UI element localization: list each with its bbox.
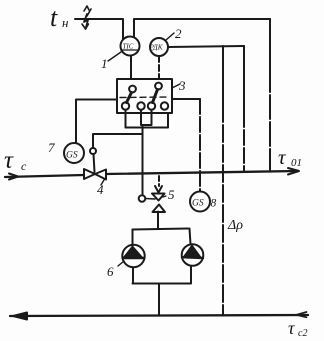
switch GS7	[64, 143, 84, 163]
svg-text:8: 8	[211, 198, 217, 210]
wire left pump to bottom rail	[132, 268, 134, 284]
pump bottom rail	[133, 283, 191, 285]
terminals bottom	[122, 102, 129, 109]
svg-text:5: 5	[168, 187, 175, 202]
switch box 3	[117, 79, 172, 113]
svg-text:2: 2	[175, 26, 182, 41]
wire controller 1 to supply pipe (top bridge)	[134, 19, 270, 37]
pump P2 (right)	[182, 244, 204, 266]
node t_n label	[50, 3, 68, 32]
wire node to valve 5	[146, 198, 156, 201]
label 3	[172, 78, 186, 93]
svg-text:GS: GS	[192, 199, 204, 209]
label tau_c	[4, 147, 27, 174]
impulse line dp to return pipe	[222, 46, 224, 105]
switch contacts top	[129, 86, 136, 93]
controller PDK circle 2	[149, 38, 169, 56]
svg-text:6: 6	[107, 264, 114, 279]
svg-text:ТIC: ТIC	[123, 43, 134, 51]
wire T1 lower horizontal	[125, 110, 127, 128]
wire box right to GS8	[172, 98, 200, 100]
wire t_n to controller 1	[75, 19, 123, 39]
wire node down to valve 4	[94, 154, 95, 172]
svg-text:τ: τ	[288, 318, 295, 338]
svg-text:РДК: РДК	[149, 44, 164, 52]
wire controller 2 impulse lines to pipes	[168, 46, 244, 47]
pump P1 (left)	[122, 245, 144, 267]
svg-text:t: t	[50, 3, 58, 32]
label 5	[163, 187, 175, 202]
label 6	[107, 261, 124, 279]
wire to left pump	[132, 230, 134, 246]
svg-text:Δρ: Δρ	[227, 218, 243, 233]
label 1	[101, 52, 121, 71]
svg-text:c: c	[21, 159, 27, 173]
switch blades	[127, 93, 132, 103]
svg-text:4: 4	[97, 182, 104, 197]
node at valve 4 stem	[90, 148, 96, 154]
svg-text:3: 3	[178, 78, 186, 93]
wire jumper down to valve5 node	[142, 125, 144, 195]
wire controller 2 to switch box (dashed)	[158, 56, 160, 79]
valve 4	[84, 169, 106, 180]
svg-text:н: н	[62, 15, 68, 30]
switch GS8	[190, 192, 210, 212]
label delta-p	[227, 218, 243, 233]
wire box left to GS7	[76, 100, 117, 144]
wire to right pump	[190, 229, 191, 245]
wire pumps to return pipe	[158, 284, 160, 316]
op-amp U1 controller TIC circle 1	[121, 37, 140, 56]
supply pipe tau_c	[5, 168, 299, 180]
node at valve 5	[139, 195, 146, 202]
return pipe tau_c2	[10, 312, 308, 320]
wire node to valve4 horizontal	[93, 134, 143, 148]
label 4	[97, 180, 104, 197]
label tau_c2	[288, 318, 307, 339]
impulse line to supply pipe	[243, 46, 245, 112]
wire right pump to bottom rail	[190, 266, 192, 284]
label tau_01	[278, 145, 302, 169]
label 2	[166, 26, 182, 41]
jumper between terminals	[141, 110, 152, 125]
valve 5	[152, 194, 165, 213]
svg-text:GS: GS	[66, 151, 78, 161]
wire controller 1 to switch box	[130, 56, 132, 79]
sensor arrow (signal zigzag at t_n input)	[82, 6, 91, 29]
pump header rail	[133, 229, 189, 230]
mechanical link dashed	[120, 96, 169, 99]
wire valve5 to pump header	[157, 212, 159, 229]
valve 5 stem arrow (dashed)	[155, 176, 162, 193]
svg-text:01: 01	[291, 157, 302, 169]
svg-text:c2: c2	[298, 328, 307, 339]
svg-text:7: 7	[48, 140, 55, 155]
svg-text:τ: τ	[4, 147, 14, 174]
svg-text:1: 1	[101, 56, 108, 71]
